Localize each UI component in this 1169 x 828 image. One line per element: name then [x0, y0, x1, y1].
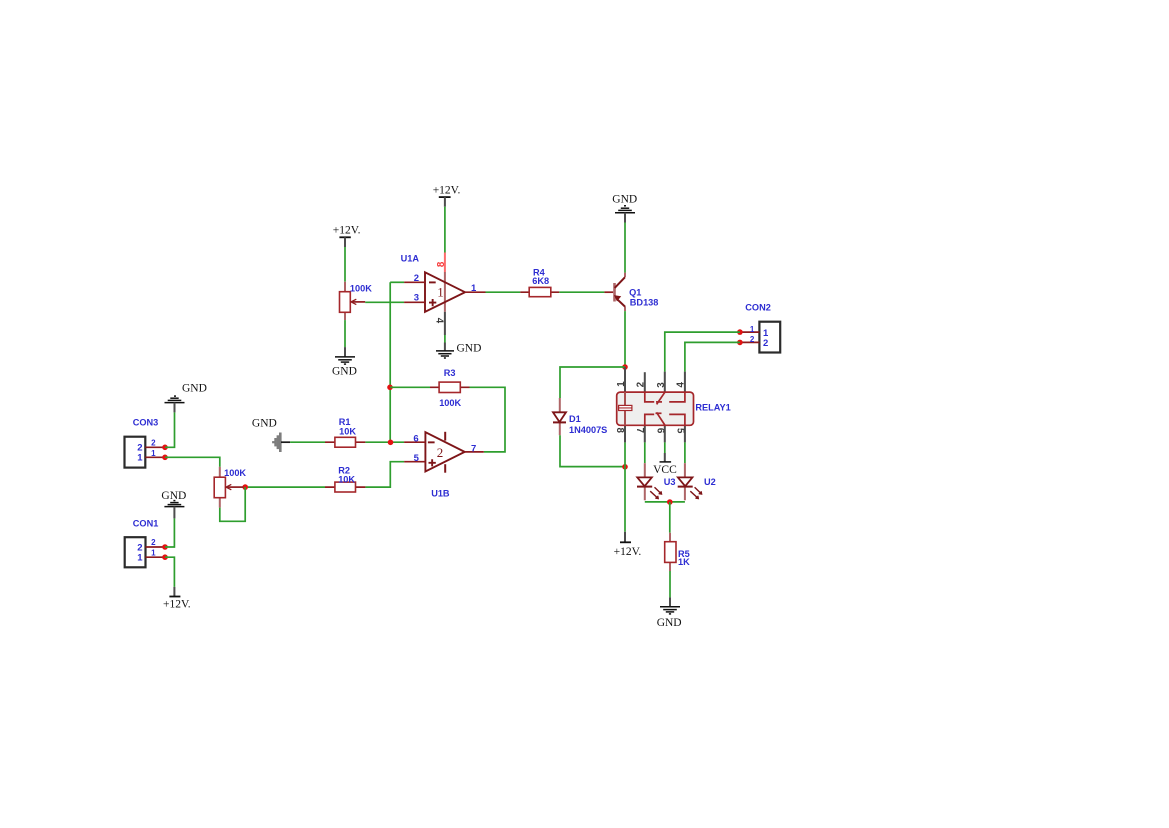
node CON1 pin2 junction: [162, 544, 168, 550]
ground above Q1 (inverted): [612, 193, 637, 222]
svg-text:GND: GND: [252, 417, 277, 429]
svg-text:VCC: VCC: [653, 464, 677, 476]
wire CON2 pin2 to relay pin4: [685, 342, 740, 371]
op-amp U1A pin 8: [436, 253, 447, 312]
wire D1 bottom to node B: [560, 435, 625, 466]
node pot RV2 wiper junction: [242, 484, 248, 490]
svg-text:5: 5: [675, 428, 686, 434]
wire R5 to GND: [669, 571, 671, 597]
wire CON1 pin1 to +12V: [165, 557, 174, 587]
svg-text:1: 1: [137, 453, 143, 464]
wire rail to R5: [669, 502, 671, 533]
svg-text:U2: U2: [704, 477, 716, 487]
svg-text:GND: GND: [332, 366, 357, 378]
svg-text:U1A: U1A: [401, 253, 420, 263]
svg-text:6: 6: [654, 428, 665, 434]
diode D1 1N4007S: [553, 398, 607, 435]
svg-text:5: 5: [414, 453, 420, 464]
wire relay pin5 to LED U2: [684, 442, 686, 463]
svg-text:2: 2: [151, 439, 156, 448]
wire relay pin7 to LED U3: [644, 442, 646, 463]
svg-text:1: 1: [137, 553, 143, 564]
resistor R5 1K: [665, 533, 690, 571]
svg-text:3: 3: [414, 293, 419, 304]
wire CON2 pin1 to relay pin3: [665, 332, 740, 372]
svg-text:1: 1: [616, 381, 627, 387]
node CON2 pin2 junction: [737, 340, 743, 346]
svg-text:4: 4: [676, 382, 687, 388]
node CON2 pin1 junction: [737, 329, 743, 335]
node R3 junction: [387, 385, 393, 391]
svg-text:+12V.: +12V.: [333, 225, 361, 237]
wire +12V to pot RV1: [344, 247, 346, 282]
svg-text:+12V.: +12V.: [163, 598, 191, 610]
svg-text:4: 4: [433, 318, 444, 324]
wire R4 to Q1 base: [559, 291, 604, 293]
wire GND to R1: [290, 441, 325, 443]
transistor Q1 BD138: [604, 273, 658, 312]
power VCC below relay pin6: [653, 442, 677, 476]
svg-text:7: 7: [471, 443, 476, 454]
ground above CON3 (inverted): [165, 383, 207, 413]
wire node A to D1 top: [560, 367, 625, 398]
svg-text:100K: 100K: [224, 468, 246, 478]
svg-text:GND: GND: [182, 383, 207, 395]
svg-text:100K: 100K: [350, 283, 372, 293]
svg-text:2: 2: [414, 273, 419, 284]
wire LED bottoms rail: [645, 501, 685, 503]
svg-text:Q1: Q1: [629, 288, 641, 298]
svg-text:2: 2: [636, 381, 647, 387]
wire R3 to U1B output: [470, 387, 506, 452]
svg-text:8: 8: [614, 427, 625, 433]
svg-text:1K: 1K: [678, 557, 690, 567]
wire pot RV1 wiper to U1A pin3: [365, 301, 404, 303]
svg-text:1: 1: [437, 284, 444, 299]
wire R1 to U1B pin6: [365, 441, 404, 443]
resistor R2 10K: [325, 465, 365, 492]
node CON3 pin2 junction: [162, 445, 168, 451]
wire pot RV1 bottom to GND: [344, 320, 346, 347]
relay RELAY1: [614, 367, 731, 442]
svg-text:+12V.: +12V.: [433, 185, 461, 197]
svg-text:6K8: 6K8: [532, 276, 549, 286]
wire CON3 pin2 to GND: [165, 412, 175, 447]
ground below R5: [657, 597, 682, 628]
resistor R3 100K: [430, 368, 470, 408]
svg-text:1: 1: [471, 283, 477, 294]
wire U1B pin5 to R2: [365, 462, 404, 487]
power +12V below CON1: [163, 587, 191, 611]
op-amp U1A: [401, 253, 486, 312]
wire node to R3: [390, 386, 430, 388]
svg-text:2: 2: [763, 338, 768, 349]
wire pot RV2 wiper-to-bottom loop: [220, 487, 245, 521]
svg-text:RELAY1: RELAY1: [695, 402, 730, 412]
svg-text:R3: R3: [444, 368, 456, 378]
node B junction: [622, 464, 628, 470]
wire GND to Q1 collector: [624, 223, 626, 273]
svg-text:3: 3: [656, 382, 667, 388]
power +12V below node B: [614, 532, 642, 558]
svg-text:2: 2: [750, 335, 755, 344]
svg-text:1: 1: [151, 449, 156, 458]
svg-text:7: 7: [634, 428, 645, 434]
resistor R4 6K8: [520, 267, 559, 296]
svg-text:CON2: CON2: [745, 303, 771, 313]
node CON1 pin1 junction: [162, 554, 168, 560]
connector CON2: [740, 303, 780, 353]
op-amp U1A pin 4 and ground: [433, 312, 481, 358]
power +12V above U1A: [433, 185, 461, 207]
wire U1A out to R4: [486, 291, 521, 293]
svg-text:1N4007S: 1N4007S: [569, 425, 607, 435]
wire +12V to U1A pin8: [444, 207, 446, 253]
svg-text:GND: GND: [457, 343, 482, 355]
svg-text:2: 2: [151, 538, 156, 547]
potentiometer 100K (RV1): [340, 282, 373, 320]
svg-text:GND: GND: [657, 617, 682, 629]
potentiometer 100K (RV2): [214, 467, 246, 508]
ground left of R1 (rotated gray): [252, 417, 290, 452]
svg-text:D1: D1: [569, 414, 581, 424]
node A junction: [622, 364, 628, 370]
connector CON1: [125, 519, 165, 568]
svg-text:2: 2: [437, 445, 444, 460]
wire vertical node bus x390: [389, 282, 391, 442]
wire CON1 pin2 to GND: [165, 518, 174, 547]
resistor R1 10K: [325, 417, 365, 447]
svg-text:100K: 100K: [439, 398, 461, 408]
svg-text:10K: 10K: [338, 475, 355, 485]
svg-text:CON1: CON1: [133, 519, 159, 529]
svg-text:+12V.: +12V.: [614, 546, 642, 558]
svg-text:8: 8: [436, 261, 447, 267]
wire Q1 emitter to node A: [624, 311, 626, 367]
connector CON3: [125, 418, 166, 468]
svg-text:CON3: CON3: [133, 418, 159, 428]
ground above CON1 (inverted): [161, 490, 186, 519]
power +12V top-left: [333, 225, 361, 247]
node CON3 pin1 junction: [162, 455, 168, 461]
wire U1A pin2 to node: [390, 281, 404, 283]
wire node B to +12V bottom: [624, 467, 626, 532]
svg-text:U1B: U1B: [431, 489, 450, 499]
svg-text:1: 1: [151, 549, 156, 558]
LED U3: [637, 463, 676, 500]
svg-text:BD138: BD138: [630, 298, 659, 308]
svg-text:1: 1: [750, 325, 755, 334]
wire relay pin1 net: [624, 442, 626, 466]
op-amp U1B: [404, 432, 484, 499]
svg-text:U3: U3: [664, 477, 676, 487]
wire CON3 pin1 to pot RV2: [165, 457, 220, 466]
svg-text:6: 6: [413, 433, 418, 444]
node LED rail junction: [667, 499, 673, 505]
svg-text:GND: GND: [612, 193, 637, 205]
svg-text:10K: 10K: [339, 426, 356, 436]
ground below pot RV1: [332, 347, 357, 377]
wire R2 to pot RV2 wiper: [248, 486, 325, 488]
node R1 junction: [388, 440, 394, 446]
LED U2: [678, 463, 716, 500]
